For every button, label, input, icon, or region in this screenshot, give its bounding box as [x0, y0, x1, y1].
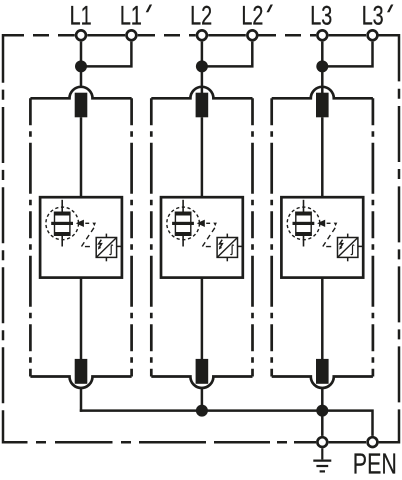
- wire protection box to bottom contact: [321, 278, 324, 360]
- svg-text:L3: L3: [362, 1, 384, 31]
- dashed coupling zigzag to disconnect device: [323, 228, 336, 247]
- varistor MOV1 middle bar: [51, 222, 73, 225]
- ground symbol stem: [321, 448, 323, 459]
- coupling dash from arrow: [206, 222, 210, 224]
- module 1 boundary left side (dash-dot): [29, 98, 32, 376]
- varistor MOV2 bottom lead: [182, 235, 184, 246]
- small arrowhead on coupling path: [334, 223, 338, 227]
- disconnect device TD1 diagonal: [96, 238, 116, 258]
- module 3 top plug-in contact: [316, 93, 329, 118]
- wire L2 terminal down to module contact: [201, 42, 204, 94]
- outer enclosure dashed border: left edge: [3, 35, 28, 442]
- prime mark of L3´: [387, 5, 393, 13]
- wire protection box to bottom contact: [80, 278, 83, 360]
- varistor MOV3 top electrode bar: [296, 212, 311, 215]
- module 2 protection circuit box: [161, 197, 243, 277]
- svg-text:L2: L2: [241, 1, 263, 31]
- disconnect device TD3 top stub: [347, 234, 349, 238]
- prime mark of L1´: [146, 5, 152, 13]
- earth terminal circle: [317, 437, 327, 447]
- module 2 boundary right side (dash-dot): [251, 98, 254, 376]
- module 3 bottom plug-in contact: [316, 359, 329, 384]
- terminal L2: [197, 30, 207, 40]
- outer enclosure dashed border: right edge: [379, 35, 399, 442]
- PE/PEN bus wire: [80, 411, 373, 436]
- varistor MOV3 monitoring dashed circle: [287, 207, 320, 240]
- wire L2´ terminal down and left to junction: [205, 42, 252, 67]
- prime mark of L2´: [267, 5, 273, 13]
- svg-text:L1: L1: [70, 1, 92, 31]
- wire contact to protection circuit box: [80, 117, 83, 197]
- varistor MOV1 top electrode bar: [55, 212, 70, 215]
- lightning arrow tip in TD2: [219, 246, 222, 250]
- varistor MOV1 body outline: [55, 212, 70, 235]
- lightning arrow tip in TD3: [339, 246, 342, 250]
- disconnect device TD3 box: [338, 238, 358, 258]
- varistor MOV1 top lead: [61, 200, 63, 213]
- disconnect device TD3 bottom stub: [347, 257, 349, 261]
- varistor MOV2 middle bar: [172, 222, 194, 225]
- module 3 top edge with plug bump: [272, 87, 373, 98]
- disconnect device TD2 box: [217, 238, 237, 258]
- wire contact to protection circuit box: [321, 117, 324, 197]
- varistor MOV3 middle bar: [293, 222, 315, 225]
- module 2 bottom edge with plug bump: [151, 377, 252, 388]
- wire bottom contact to PE bus: [201, 389, 204, 412]
- wire bottom contact to PE bus: [80, 389, 83, 412]
- module 1 bottom plug-in contact: [75, 359, 88, 384]
- wire L1´ terminal down and left to junction: [84, 42, 131, 67]
- junction node bus/branch3: [316, 405, 328, 417]
- module 2 top edge with plug bump: [151, 87, 252, 98]
- varistor MOV3 bottom lead: [303, 235, 305, 246]
- svg-text:L1: L1: [120, 1, 142, 31]
- wire junction to earth terminal: [321, 411, 324, 436]
- module 1 boundary right side (dash-dot): [130, 98, 133, 376]
- wire bottom contact to PE bus: [321, 389, 324, 412]
- disconnect device TD3 diagonal: [338, 238, 358, 258]
- disconnect device TD2 right stub to box wall: [238, 245, 242, 247]
- dashed coupling zigzag to disconnect device: [81, 228, 94, 247]
- terminal L1: [76, 30, 86, 40]
- small arrowhead on coupling path: [92, 223, 96, 227]
- terminal L3´: [368, 30, 378, 40]
- ground symbol bar 3: [320, 470, 325, 472]
- wire L1 terminal down to module contact: [80, 42, 83, 87]
- PEN terminal circle: [368, 437, 378, 447]
- lightning arrow tip in TD1: [98, 246, 101, 250]
- small arrowhead on coupling path: [213, 223, 217, 227]
- coupling dash from arrow: [327, 222, 331, 224]
- junction node L3/L3´: [316, 60, 328, 72]
- surge current (lightning) symbol in TD2: [220, 240, 223, 247]
- ground symbol bar 2: [316, 465, 328, 467]
- surge current (lightning) symbol in TD1: [99, 240, 102, 247]
- module 3 boundary right side (dash-dot): [372, 98, 375, 376]
- disconnect device TD3 right stub to box wall: [358, 245, 362, 247]
- junction node L2/L2´: [196, 60, 208, 72]
- energy integral symbol in TD2: [231, 245, 234, 255]
- wire L3´ terminal down and left to junction: [325, 42, 372, 67]
- varistor MOV3 top lead: [303, 200, 305, 213]
- disconnector actuator arrow at varistor: [76, 220, 84, 227]
- varistor MOV2 top electrode bar: [175, 212, 190, 215]
- wire contact to protection circuit box: [201, 117, 204, 197]
- junction node bus/branch2: [196, 405, 208, 417]
- svg-text:PEN: PEN: [353, 448, 397, 480]
- wire protection box to bottom contact: [201, 278, 204, 360]
- varistor MOV1 bottom lead: [61, 235, 63, 246]
- surge current (lightning) symbol in TD3: [340, 240, 343, 247]
- disconnect device TD1 box: [96, 238, 116, 258]
- varistor MOV1 bottom electrode bar: [55, 232, 70, 235]
- disconnect device TD2 top stub: [226, 234, 228, 238]
- terminal L3: [317, 30, 327, 40]
- dashed coupling zigzag to disconnect device: [202, 228, 215, 247]
- varistor MOV1 monitoring dashed circle: [46, 207, 79, 240]
- ground symbol bar 1: [313, 460, 331, 462]
- varistor MOV3 body outline: [296, 212, 311, 235]
- module 2 bottom plug-in contact: [196, 359, 209, 384]
- disconnect device TD1 top stub: [105, 234, 107, 238]
- coupling dash from arrow: [85, 222, 89, 224]
- module 3 bottom edge with plug bump: [272, 377, 373, 388]
- module 2 boundary left side (dash-dot): [150, 98, 153, 376]
- terminal L2´: [247, 30, 257, 40]
- svg-text:L3: L3: [310, 1, 332, 31]
- varistor MOV2 bottom electrode bar: [175, 232, 190, 235]
- disconnect device TD2 diagonal: [217, 238, 237, 258]
- energy integral symbol in TD3: [351, 245, 354, 255]
- module 3 protection circuit box: [281, 197, 363, 277]
- module 2 top plug-in contact: [196, 93, 209, 118]
- terminal L1´: [126, 30, 136, 40]
- disconnector actuator arrow at varistor: [197, 220, 205, 227]
- module 3 boundary left side (dash-dot): [270, 98, 273, 376]
- wire L3 terminal down to module contact: [321, 42, 324, 94]
- module 1 protection circuit box: [40, 197, 122, 277]
- varistor MOV3 bottom electrode bar: [296, 232, 311, 235]
- outer enclosure dashed border: top edge: [3, 34, 399, 37]
- disconnect device TD1 bottom stub: [105, 257, 107, 261]
- module 1 top edge with plug bump: [30, 87, 131, 98]
- disconnect device TD1 right stub to box wall: [117, 245, 121, 247]
- disconnector actuator arrow at varistor: [317, 220, 325, 227]
- varistor MOV2 body outline: [175, 212, 190, 235]
- varistor MOV2 top lead: [182, 200, 184, 213]
- outer enclosure dashed border: bottom edge: [36, 441, 366, 444]
- module 1 bottom edge with plug bump: [30, 377, 131, 388]
- junction node L1/L1´: [75, 60, 87, 72]
- disconnect device TD2 bottom stub: [226, 257, 228, 261]
- module 1 top plug-in contact: [75, 93, 88, 118]
- energy integral symbol in TD1: [110, 245, 113, 255]
- svg-text:L2: L2: [190, 1, 212, 31]
- varistor MOV2 monitoring dashed circle: [167, 207, 200, 240]
